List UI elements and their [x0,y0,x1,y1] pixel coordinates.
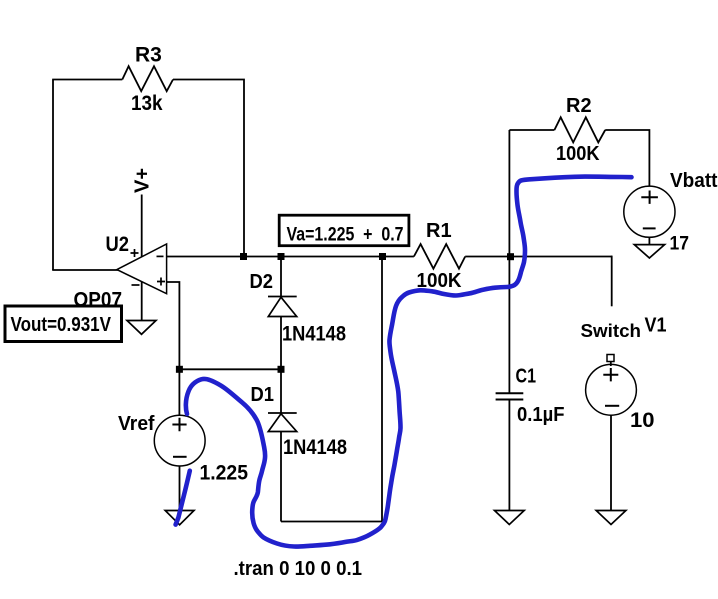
label 17 value [670,234,690,255]
svg-text:.tran 0 10 0 0.1: .tran 0 10 0 0.1 [234,558,363,580]
Vbatt plus marker [641,191,658,204]
ground Vbatt [634,245,664,258]
svg-text:Switch: Switch [581,321,642,341]
svg-text:0.1µF: 0.1µF [517,404,565,426]
wire main horizontal node from inverting input [167,256,612,258]
svg-text:1N4148: 1N4148 [282,323,346,346]
svg-text:Va=1.225 + 0.7: Va=1.225 + 0.7 [287,225,404,246]
op-amp power minus marker [132,284,140,286]
spice directive .tran [234,558,363,580]
Vbatt minus marker [643,227,656,229]
svg-text:V+: V+ [132,168,154,193]
unconnected pin marker of V1 [607,355,614,362]
wire junction to D1 cathode [280,369,282,413]
voltage source Vref circle [154,415,205,466]
wire switch drop (open) [611,256,613,307]
wire D2 anode to junction [280,317,282,370]
ground Vref [165,511,194,525]
net label V+ (rotated) [132,168,154,193]
voltage source V1 circle [586,364,637,415]
svg-text:17: 17 [670,234,690,255]
label 1.225 value [200,462,249,485]
annotation box Va [279,215,409,246]
label 13k value of R3 [131,92,163,115]
node junction Va [379,253,386,260]
V1 minus marker [605,405,619,407]
wire op-amp output to left loop [52,269,118,271]
wire R2 row left [509,129,554,131]
wire lower horizontal to D1 [179,368,281,370]
wire bottom return loop [281,257,382,522]
wire Vref bottom [179,466,181,511]
svg-text:C1: C1 [516,366,537,388]
label 1N4148 for D2 [282,323,346,346]
label U2 [106,233,130,256]
wire V+ supply to op-amp top [141,195,143,258]
label 0.1uF value [517,404,565,426]
wire non-inverting input to lower node [167,282,180,369]
label 100K value of R1 [417,270,463,292]
label Va value [287,225,404,246]
node junction R3/inverting [240,253,247,260]
label R1 [426,220,452,242]
op-amp non-inverting input plus marker [157,278,165,286]
svg-text:13k: 13k [131,92,163,115]
wire D1 anode down [280,432,282,522]
svg-text:OP07: OP07 [74,289,123,312]
svg-text:D2: D2 [250,271,274,293]
wire R2 right to Vbatt [605,130,649,186]
wire Vref top [178,369,180,415]
svg-text:U2: U2 [106,233,130,256]
svg-text:R2: R2 [566,95,592,117]
label OP07 [74,289,123,312]
op-amp inverting input minus marker [157,255,164,257]
label 1N4148 for D1 [283,436,347,459]
wire V1 pin stub [610,362,612,367]
label Vbatt [670,170,718,192]
label R2 [566,95,592,117]
op-amp U1 triangle body [117,244,167,294]
label C1 [516,366,537,388]
label V1 [645,315,667,337]
label 100K value of R2 [556,143,600,165]
svg-text:Vbatt: Vbatt [670,170,718,192]
label 10 value [630,409,655,432]
voltage source Vbatt circle [624,186,675,237]
ground V1 [596,511,626,525]
svg-text:R3: R3 [135,44,162,67]
svg-text:Vout=0.931V: Vout=0.931V [11,314,112,336]
svg-text:10: 10 [630,409,655,432]
diode D1 [268,413,297,432]
svg-text:R1: R1 [426,220,452,242]
label D2 [250,271,274,293]
wire top-left horizontal to R3 [52,79,122,81]
wire V1 bottom [610,415,612,510]
wire C1 bottom [508,400,510,511]
node junction R1 right / C1 [507,253,514,260]
node junction D2 top [278,253,285,260]
ground C1 [495,511,525,525]
annotation blue freehand curve [186,177,632,547]
label D1 [251,384,275,406]
Vref minus marker [173,456,187,458]
Vref plus marker [172,418,186,432]
label R3 [135,44,162,67]
svg-text:D1: D1 [251,384,275,406]
svg-text:100K: 100K [556,143,600,165]
label Switch [581,321,642,341]
svg-text:Vref: Vref [118,413,155,435]
svg-text:1N4148: 1N4148 [283,436,347,459]
label Vout value [11,314,112,336]
diode D2 [268,297,297,317]
V1 plus marker [603,368,618,381]
op-amp power plus marker [131,249,139,257]
node junction D2/D1 [278,366,285,373]
resistor R2 [554,117,605,142]
ground op-amp negative supply [127,321,156,335]
annotation blue stroke short segment at Vref ground [176,471,190,525]
node junction non-inverting / Vref [176,366,183,373]
svg-text:V1: V1 [645,315,667,337]
wire C1 top / R2 branch vertical [508,130,510,393]
label Vref [118,413,155,435]
wire left vertical feedback loop [52,80,54,271]
resistor R1 [414,244,465,269]
annotation box Vout [5,306,122,342]
capacitor C1 [496,393,524,399]
wire Vbatt bottom stub [648,237,650,244]
svg-text:1.225: 1.225 [200,462,249,485]
wire op-amp V- pin down [141,282,143,321]
resistor R3 [122,66,173,91]
wire R3 right to corner and down to inverting node [173,80,244,257]
wire D2 cathode up to node [280,257,282,297]
